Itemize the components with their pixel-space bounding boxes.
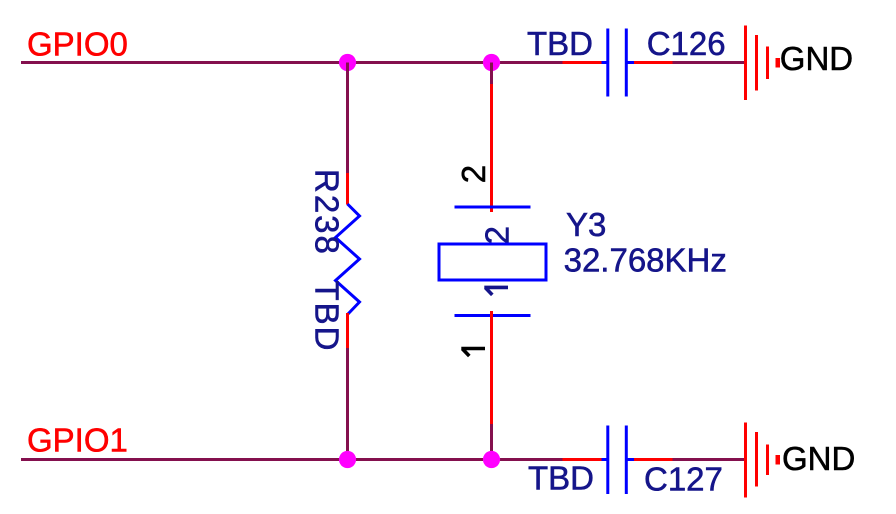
crystal Y3 bottom plate: [455, 314, 531, 317]
svg-text:C127: C127: [644, 461, 723, 498]
svg-text:GND: GND: [782, 440, 855, 477]
wire C127 to GND: [673, 458, 745, 461]
svg-text:Y3: Y3: [566, 206, 606, 243]
junction node GPIO0/R238: [339, 54, 356, 71]
pin Y3 pin1 red: [490, 311, 493, 425]
wire Y3 bottom vertical: [490, 424, 493, 460]
pin number 1 Y3 bottom: [461, 349, 485, 357]
svg-text:TBD: TBD: [528, 460, 594, 497]
capacitor C126 right plate: [625, 29, 628, 97]
wire Y3 top vertical: [490, 63, 493, 86]
ground symbol top bar1: [744, 26, 747, 101]
svg-text:GND: GND: [780, 40, 853, 77]
wire GPIO0 top rail: [21, 61, 563, 64]
svg-text:GPIO0: GPIO0: [27, 26, 128, 63]
capacitor C126 left plate: [606, 29, 609, 97]
ground symbol bottom pin dot: [776, 455, 781, 465]
svg-text:C126: C126: [647, 25, 726, 62]
junction node GPIO1/R238: [339, 451, 356, 468]
capacitor C126 right stub: [628, 61, 635, 64]
pin R238 pin2 red: [346, 313, 349, 349]
crystal Y3 body rectangle: [439, 244, 546, 280]
svg-text:2: 2: [455, 165, 492, 183]
capacitor C126 left stub: [602, 61, 607, 64]
ground symbol top pin dot: [776, 58, 781, 68]
wire pin lead red C126 right: [632, 61, 673, 64]
svg-text:2: 2: [478, 226, 515, 244]
svg-text:32.768KHz: 32.768KHz: [564, 242, 727, 279]
capacitor C127 left stub: [602, 458, 607, 461]
junction node GPIO1/Y3: [483, 451, 500, 468]
ground symbol top bar3: [766, 47, 769, 80]
ground symbol top bar2: [755, 35, 758, 91]
pin number 1 at crystal body: [484, 287, 508, 295]
wire pin lead red C127 right: [632, 458, 673, 461]
wire R238 bottom vertical: [346, 348, 349, 460]
pin Y3 pin2 red: [490, 84, 493, 212]
svg-text:TBD: TBD: [309, 281, 346, 353]
ground symbol bottom bar1: [744, 423, 747, 498]
resistor R238: [336, 204, 360, 315]
wire R238 top vertical: [346, 63, 349, 175]
wire GPIO1 bottom rail: [21, 458, 563, 461]
wire pin lead red C126 left: [563, 61, 603, 64]
ground symbol bottom bar2: [755, 432, 758, 487]
wire C126 to GND: [673, 61, 745, 64]
capacitor C127 left plate: [606, 426, 609, 495]
crystal Y3 top plate: [455, 206, 531, 209]
wire pin lead red C127 left: [563, 458, 603, 461]
svg-text:TBD: TBD: [527, 25, 593, 62]
svg-text:GPIO1: GPIO1: [27, 422, 128, 459]
pin R238 pin1 red: [346, 173, 349, 205]
svg-text:R238: R238: [309, 169, 346, 256]
capacitor C127 right plate: [625, 426, 628, 495]
junction node GPIO0/Y3: [483, 54, 500, 71]
ground symbol bottom bar3: [766, 445, 769, 476]
capacitor C127 right stub: [628, 458, 635, 461]
